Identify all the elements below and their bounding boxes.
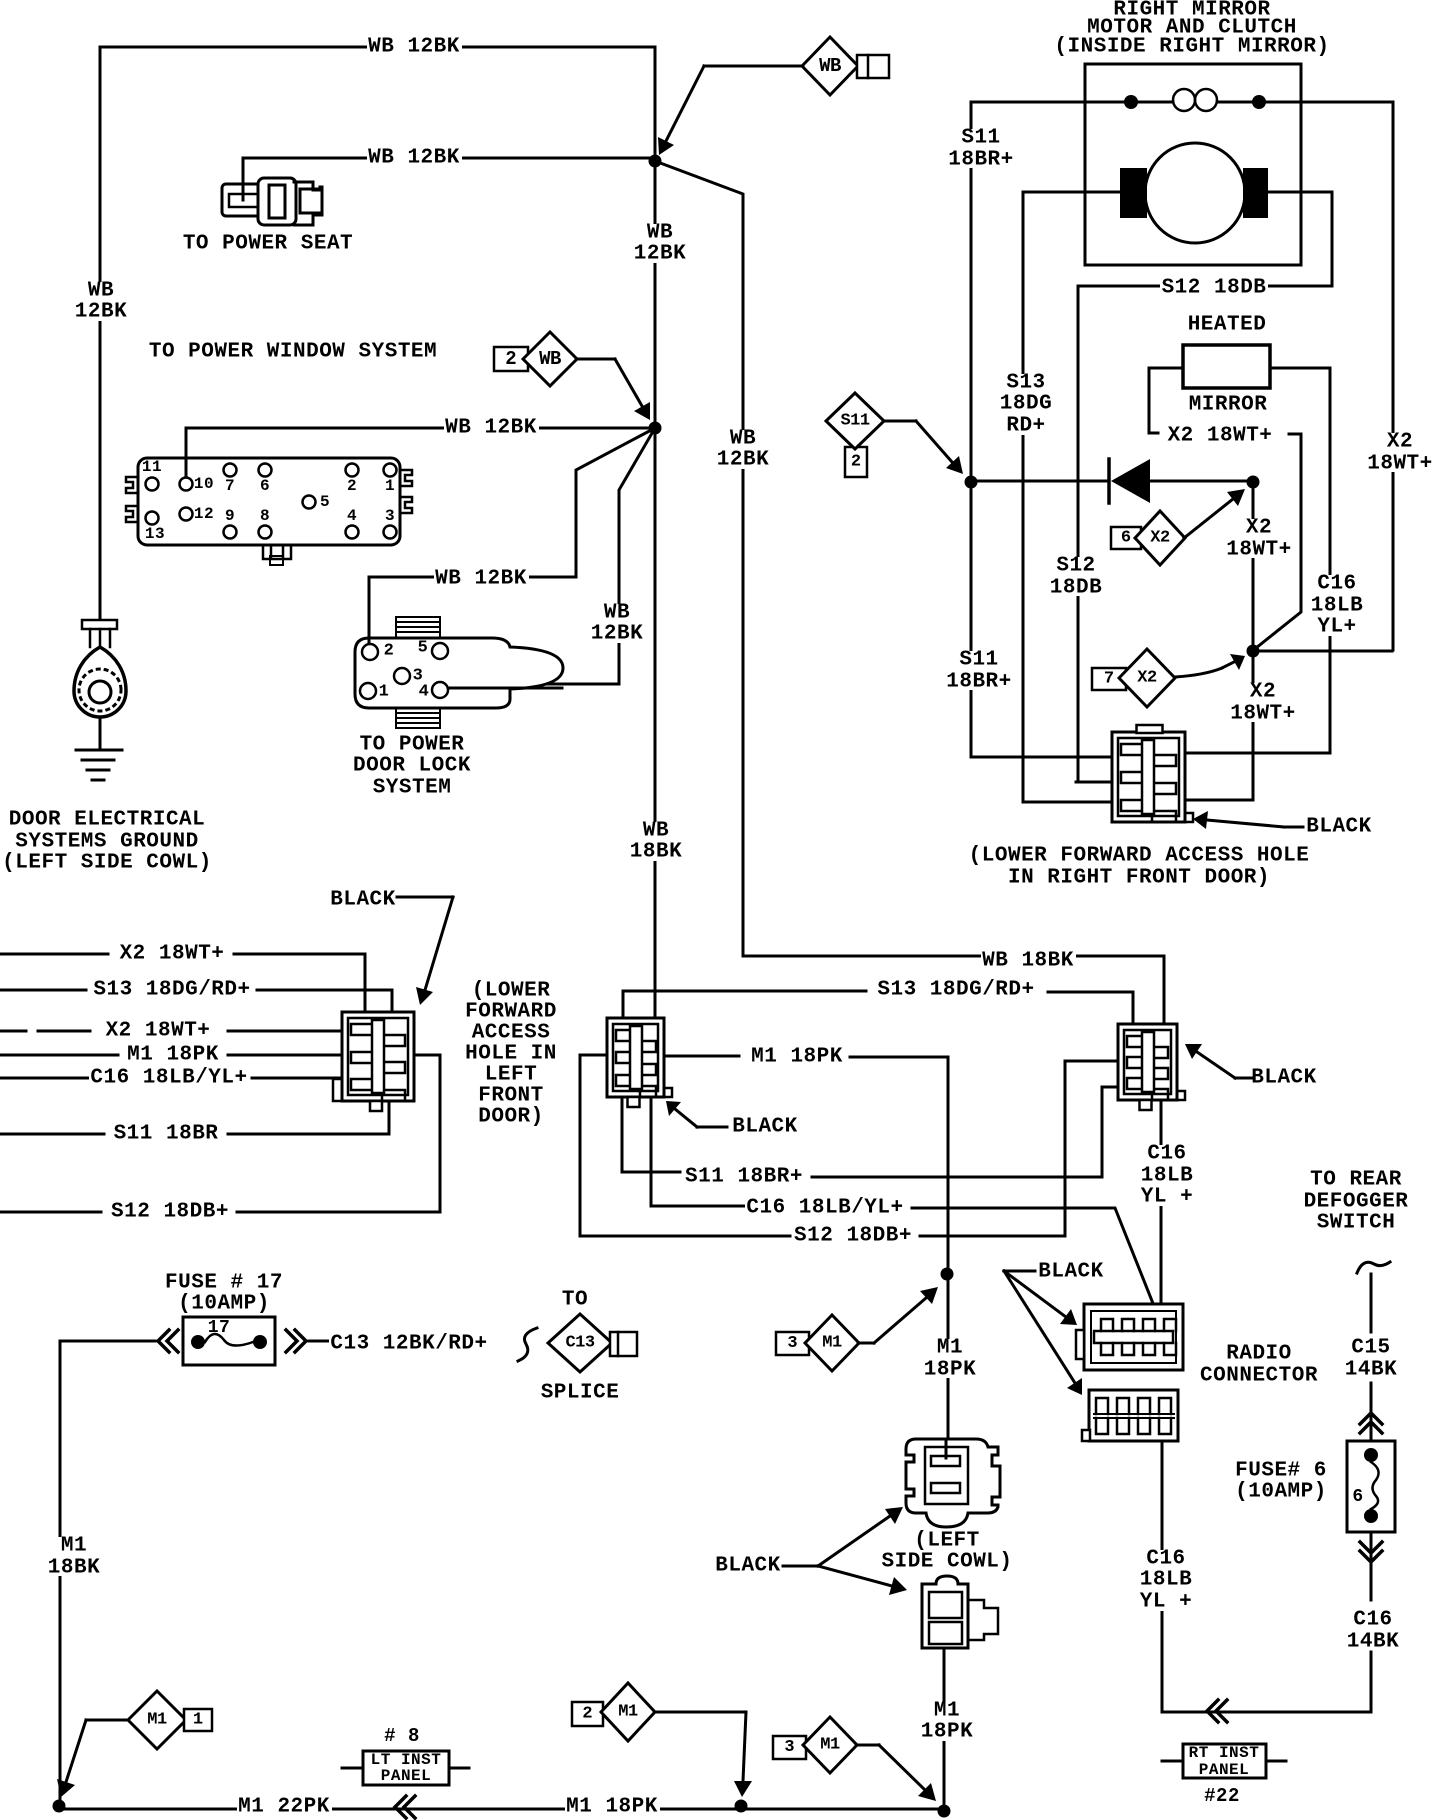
motor symbol bbox=[1145, 143, 1245, 243]
wire M1 18PK label row bbox=[0, 1054, 349, 1057]
arrow BLACK to left connector bbox=[425, 897, 453, 990]
svg-text:HOLE IN: HOLE IN bbox=[465, 1043, 557, 1066]
svg-text:18WT+: 18WT+ bbox=[1230, 703, 1296, 726]
svg-text:18LB: 18LB bbox=[1140, 1569, 1192, 1592]
svg-text:11: 11 bbox=[142, 458, 162, 476]
svg-text:1: 1 bbox=[385, 477, 395, 495]
svg-text:2: 2 bbox=[347, 477, 357, 495]
fuse 17 bbox=[183, 1317, 275, 1365]
wire C15 14BK into fuse 6 bbox=[1370, 1383, 1373, 1441]
label S11 18BR+ upper bbox=[946, 129, 1016, 168]
diamond WB connector callout top bbox=[802, 37, 858, 95]
svg-text:C15: C15 bbox=[1351, 1337, 1390, 1360]
svg-text:DEFOGGER: DEFOGGER bbox=[1304, 1191, 1409, 1214]
label S12 18DB+ middle bbox=[793, 1228, 914, 1245]
defogger wire fork bbox=[1357, 1262, 1390, 1273]
label BLACK middle connector bbox=[731, 1119, 799, 1136]
label WB 12BK top wire bbox=[367, 39, 462, 56]
connector radio upper bbox=[1084, 1304, 1183, 1370]
wire M1 18BK left vertical bbox=[59, 1341, 62, 1806]
label BLACK left connector bbox=[329, 892, 397, 909]
label S12 18DB vertical bbox=[1048, 557, 1104, 596]
connector power window system bbox=[138, 458, 400, 545]
svg-text:X2: X2 bbox=[1246, 517, 1272, 540]
svg-text:HEATED: HEATED bbox=[1188, 314, 1267, 337]
svg-text:S11: S11 bbox=[959, 649, 998, 672]
svg-text:14BK: 14BK bbox=[1347, 1631, 1399, 1654]
arrow BLACK to lower cowl connector bbox=[818, 1566, 892, 1586]
label X2 18WT+ heated mirror bbox=[1166, 428, 1274, 445]
label C15 14BK bbox=[1343, 1339, 1399, 1378]
wire motor clutch coil feed S11/X2 bbox=[971, 101, 1393, 104]
svg-text:4: 4 bbox=[347, 507, 357, 525]
chevron bottom bus bbox=[395, 1796, 415, 1818]
label #8 bbox=[383, 1728, 422, 1743]
wire stub to door-lock pin 2 bbox=[368, 638, 371, 644]
label M1 22PK bbox=[237, 1799, 332, 1816]
box LT INST PANEL bbox=[363, 1751, 449, 1785]
svg-text:18BK: 18BK bbox=[48, 1557, 100, 1580]
svg-text:FORWARD: FORWARD bbox=[465, 1001, 557, 1024]
connector left side cowl upper bbox=[906, 1439, 1000, 1527]
wire WB 12BK power-seat horizontal bbox=[243, 157, 655, 160]
svg-text:X2 18WT+: X2 18WT+ bbox=[120, 943, 225, 966]
label X2 18WT+ diode bbox=[1224, 519, 1294, 558]
wire power seat drop bbox=[242, 158, 245, 196]
svg-text:PANEL: PANEL bbox=[1199, 1761, 1250, 1779]
chevron fuse6 bottom bbox=[1207, 1700, 1227, 1722]
wire X2 18WT label row to left connector top bbox=[0, 954, 365, 1012]
chevron up fuse 6 bbox=[1360, 1413, 1382, 1433]
label M1 18PK row3 bbox=[126, 1047, 221, 1064]
label BLACK right door connector bbox=[1305, 819, 1373, 836]
label fuse 6 bbox=[1233, 1462, 1329, 1501]
label C16 18LB/YL+ middle bbox=[745, 1200, 905, 1217]
svg-text:WB: WB bbox=[730, 428, 756, 451]
svg-text:S11: S11 bbox=[840, 412, 869, 431]
svg-text:BLACK: BLACK bbox=[732, 1116, 798, 1139]
svg-text:8: 8 bbox=[260, 507, 270, 525]
svg-text:PANEL: PANEL bbox=[381, 1767, 432, 1785]
wire S13 18DG/RD label row bbox=[0, 990, 392, 1012]
ground door electrical systems ground bbox=[82, 620, 117, 629]
wire M1 18PK to junction bbox=[664, 1056, 948, 1274]
svg-text:18PK: 18PK bbox=[921, 1721, 973, 1744]
wire S11 to right-door connector bbox=[971, 482, 1112, 757]
svg-text:9: 9 bbox=[225, 507, 235, 525]
svg-text:X2: X2 bbox=[1250, 681, 1276, 704]
svg-text:M1 22PK: M1 22PK bbox=[238, 1796, 330, 1819]
wire C16 18LB YL below lower connector bbox=[1161, 1441, 1164, 1712]
svg-text:2: 2 bbox=[384, 642, 395, 661]
svg-text:2: 2 bbox=[851, 453, 861, 472]
svg-text:C16 18LB/YL+: C16 18LB/YL+ bbox=[746, 1197, 903, 1220]
label X2 18WT+ at junction bbox=[1228, 683, 1298, 722]
wire C16 14BK lower bbox=[1370, 1652, 1373, 1712]
svg-text:M1: M1 bbox=[820, 1736, 840, 1755]
fuse 6 bbox=[1347, 1441, 1395, 1532]
diamond 7 X2 callout bbox=[1092, 668, 1126, 690]
wire S13 18DG/RD vertical bbox=[1023, 192, 1114, 802]
label right mirror motor and clutch bbox=[1052, 1, 1331, 56]
wire break squiggle bbox=[518, 1328, 537, 1361]
svg-text:13: 13 bbox=[145, 525, 165, 543]
svg-text:C13: C13 bbox=[565, 1334, 594, 1353]
svg-text:18WT+: 18WT+ bbox=[1226, 539, 1292, 562]
svg-text:RT INST: RT INST bbox=[1189, 1744, 1260, 1762]
connector to power seat bbox=[222, 184, 266, 216]
diamond 6 X2 callout bbox=[1111, 527, 1141, 549]
label WB 12BK door lock wire bbox=[434, 571, 529, 588]
svg-text:X2: X2 bbox=[1137, 669, 1157, 688]
junction J1 WB splice top bbox=[649, 155, 662, 168]
arrow WB callout to junction J1 bbox=[666, 66, 704, 141]
chevron fuse 17 right bbox=[286, 1330, 306, 1352]
wire coil segment bbox=[1131, 101, 1259, 104]
svg-text:WB 12BK: WB 12BK bbox=[368, 36, 460, 59]
wire stub into power seat connector bbox=[242, 184, 245, 200]
arrow BLACK to right door connector bbox=[1207, 820, 1284, 827]
wire X2 junction to far-right vertical bbox=[1253, 650, 1392, 653]
svg-text:M1: M1 bbox=[937, 1337, 963, 1360]
svg-text:6: 6 bbox=[1121, 529, 1131, 548]
wire M1 bottom bus bbox=[59, 1808, 944, 1811]
svg-text:12BK: 12BK bbox=[717, 449, 769, 472]
arrow 3-M1 lower to junction bbox=[879, 1745, 925, 1790]
svg-text:(LEFT SIDE COWL): (LEFT SIDE COWL) bbox=[2, 852, 212, 875]
wire S11 18BR label row bbox=[0, 1101, 389, 1134]
label WB 12BK window wire bbox=[444, 420, 539, 437]
wire below fuse 6 bbox=[1370, 1532, 1373, 1600]
arrow BLACK to upper cowl connector bbox=[818, 1516, 890, 1566]
junction X2 splice lower bbox=[1247, 645, 1260, 658]
svg-text:C16 18LB/YL+: C16 18LB/YL+ bbox=[90, 1067, 247, 1090]
svg-text:ACCESS: ACCESS bbox=[472, 1022, 551, 1045]
svg-text:BLACK: BLACK bbox=[1038, 1261, 1104, 1284]
svg-text:2: 2 bbox=[505, 348, 516, 370]
connector C-L left front door (comb) bbox=[342, 1012, 414, 1101]
svg-text:S12 18DB+: S12 18DB+ bbox=[794, 1225, 912, 1248]
label S12 18DB horizontal bbox=[1160, 280, 1268, 297]
junction J2 WB splice bbox=[649, 422, 662, 435]
dashes LT INST PANEL bbox=[342, 1767, 469, 1770]
svg-text:2: 2 bbox=[582, 1705, 592, 1724]
dashes RT INST PANEL bbox=[1162, 1760, 1286, 1763]
svg-text:10: 10 bbox=[194, 475, 214, 493]
diamond 2 WB callout bbox=[494, 347, 528, 371]
svg-text:18LB: 18LB bbox=[1141, 1165, 1193, 1188]
connector radio lower bbox=[1089, 1390, 1178, 1441]
wire WB 12BK to door-lock pin 4 bbox=[448, 428, 655, 684]
svg-text:#22: #22 bbox=[1204, 1785, 1240, 1807]
label lower forward access hole left front door bbox=[463, 982, 559, 1126]
arrow BLACK to middle connector bbox=[675, 1109, 697, 1127]
wire S11 18BR cross link bbox=[622, 1087, 1118, 1177]
svg-text:CONNECTOR: CONNECTOR bbox=[1200, 1365, 1318, 1388]
svg-text:(LEFT: (LEFT bbox=[914, 1530, 980, 1553]
svg-text:18PK: 18PK bbox=[924, 1359, 976, 1382]
svg-text:MIRROR: MIRROR bbox=[1189, 394, 1268, 417]
arrow BLACK to right connector row3 bbox=[1197, 1052, 1235, 1078]
label fuse 17 bbox=[163, 1274, 285, 1313]
wire stub to pin 10 bbox=[185, 458, 188, 476]
diamond C13 splice callout bbox=[548, 1314, 612, 1372]
svg-text:SPLICE: SPLICE bbox=[541, 1382, 620, 1405]
wire S13 18DG/RD left-door to right-door bbox=[623, 991, 1133, 1022]
svg-text:YL +: YL + bbox=[1141, 1186, 1193, 1209]
label C13 12BK/RD+ bbox=[329, 1336, 489, 1353]
wire S12 18DB label row bbox=[0, 1055, 440, 1212]
label C16 18LB YL+ lower bbox=[1138, 1550, 1194, 1611]
svg-text:6: 6 bbox=[260, 477, 270, 495]
svg-text:LEFT: LEFT bbox=[485, 1064, 537, 1087]
svg-text:S13 18DG/RD+: S13 18DG/RD+ bbox=[93, 979, 250, 1002]
svg-text:S13 18DG/RD+: S13 18DG/RD+ bbox=[877, 979, 1034, 1002]
diamond 3 M1 callout lower bbox=[773, 1736, 806, 1759]
label WB 12BK right vertical bbox=[715, 430, 771, 469]
svg-text:C16: C16 bbox=[1353, 1609, 1392, 1632]
svg-text:TO REAR: TO REAR bbox=[1310, 1169, 1402, 1192]
svg-text:DOOR): DOOR) bbox=[478, 1106, 544, 1129]
svg-text:5: 5 bbox=[418, 639, 429, 658]
label X2 18WT+ row3 second bbox=[104, 1023, 212, 1040]
label X2 18WT+ far right bbox=[1365, 433, 1435, 472]
arrow 2-M1 to bottom junction bbox=[743, 1712, 746, 1781]
svg-text:18BK: 18BK bbox=[630, 841, 682, 864]
label WB 12BK left vertical bbox=[73, 282, 129, 321]
svg-text:M1: M1 bbox=[934, 1700, 960, 1723]
label left side cowl bbox=[880, 1532, 1015, 1571]
wire X2 18WT from label to junction bbox=[1256, 434, 1301, 648]
junction M1 bottom left bbox=[53, 1800, 66, 1813]
junction M1 bottom middle bbox=[735, 1800, 748, 1813]
label #22 bbox=[1203, 1788, 1242, 1803]
wire fuse 17 feeds bbox=[60, 1340, 330, 1343]
label S11 18BR+ lower bbox=[944, 651, 1014, 690]
wire WB 12BK main vertical bbox=[654, 47, 657, 428]
svg-text:SWITCH: SWITCH bbox=[1317, 1212, 1396, 1235]
svg-text:DOOR LOCK: DOOR LOCK bbox=[353, 755, 471, 778]
label WB 12BK seat wire bbox=[367, 150, 462, 167]
diamond 3 M1 callout upper bbox=[776, 1332, 809, 1355]
svg-text:TO POWER: TO POWER bbox=[360, 734, 465, 757]
wire WB 12BK power-window horizontal bbox=[186, 427, 655, 430]
svg-text:1: 1 bbox=[379, 683, 390, 702]
svg-text:7: 7 bbox=[1104, 670, 1114, 689]
wire stub into cowl connector bbox=[945, 1439, 948, 1458]
svg-text:X2 18WT+: X2 18WT+ bbox=[106, 1020, 211, 1043]
svg-text:S12 18DB+: S12 18DB+ bbox=[111, 1201, 229, 1224]
svg-text:S11 18BR+: S11 18BR+ bbox=[685, 1166, 803, 1189]
arrow 7-X2 callout to junction bbox=[1222, 662, 1234, 668]
wire X2 junction link vertical bbox=[1252, 482, 1255, 651]
label WB 18BK vertical bbox=[628, 822, 684, 861]
label to rear defogger switch bbox=[1302, 1171, 1411, 1232]
svg-text:WB: WB bbox=[643, 820, 669, 843]
svg-text:3: 3 bbox=[784, 1738, 794, 1757]
label M1 18BK bbox=[46, 1537, 102, 1576]
svg-text:WB: WB bbox=[539, 348, 561, 370]
svg-text:1: 1 bbox=[193, 1711, 203, 1730]
door lock pins bbox=[362, 644, 378, 660]
svg-text:M1: M1 bbox=[618, 1703, 638, 1722]
wire M1 18PK lower cowl connector to bottom bbox=[943, 1648, 946, 1811]
svg-text:18DB: 18DB bbox=[1050, 577, 1102, 600]
svg-text:WB 12BK: WB 12BK bbox=[435, 568, 527, 591]
label BLACK right connector row3 bbox=[1250, 1070, 1318, 1087]
label S11 18BR row3 bbox=[112, 1126, 220, 1143]
arrow 3-M1 to junction bbox=[874, 1298, 926, 1343]
svg-text:TO POWER SEAT: TO POWER SEAT bbox=[183, 233, 353, 256]
arrow S11 callout to junction bbox=[916, 421, 952, 462]
svg-text:12BK: 12BK bbox=[634, 243, 686, 266]
svg-text:4: 4 bbox=[419, 683, 430, 702]
svg-text:S11 18BR: S11 18BR bbox=[114, 1123, 219, 1146]
svg-text:FUSE# 6: FUSE# 6 bbox=[1235, 1460, 1327, 1483]
svg-text:TO POWER WINDOW SYSTEM: TO POWER WINDOW SYSTEM bbox=[149, 341, 437, 364]
diode mirror heater bbox=[1107, 459, 1111, 503]
label WB 18BK horizontal bbox=[981, 953, 1076, 970]
svg-text:RADIO: RADIO bbox=[1226, 1343, 1292, 1366]
wire S11 18BR vertical right bbox=[970, 102, 973, 480]
wire S11 junction to diode bbox=[978, 480, 1106, 483]
svg-text:12: 12 bbox=[194, 505, 214, 523]
wire C16 heated mirror right bbox=[1185, 368, 1330, 753]
svg-text:18BR+: 18BR+ bbox=[946, 671, 1012, 694]
right mirror motor and clutch box bbox=[1085, 64, 1301, 265]
svg-text:6: 6 bbox=[1352, 1487, 1363, 1507]
connector C-R3 right door harness (comb) bbox=[1118, 1024, 1177, 1100]
wire motor right brush S12 bbox=[1078, 192, 1332, 286]
svg-text:M1: M1 bbox=[61, 1535, 87, 1558]
wire S12 18DB cross link bbox=[580, 1055, 1118, 1236]
svg-text:C16: C16 bbox=[1147, 1143, 1186, 1166]
wire fuse6 bottom horizontal bbox=[1162, 1711, 1371, 1714]
arrow BLACK to lower connector bbox=[1004, 1271, 1075, 1383]
connector C-R2 right front door (comb) bbox=[1112, 732, 1185, 822]
svg-text:C13 12BK/RD+: C13 12BK/RD+ bbox=[330, 1333, 487, 1356]
svg-text:YL +: YL + bbox=[1140, 1591, 1192, 1614]
svg-text:18BR+: 18BR+ bbox=[948, 149, 1014, 172]
svg-text:BLACK: BLACK bbox=[1251, 1067, 1317, 1090]
svg-text:BLACK: BLACK bbox=[715, 1555, 781, 1578]
chevron fuse 17 left bbox=[158, 1330, 178, 1352]
wire C15 from defogger fork bbox=[1370, 1274, 1373, 1332]
wire WB 12BK to door-lock pin 2 bbox=[369, 428, 655, 652]
svg-text:WB 12BK: WB 12BK bbox=[368, 147, 460, 170]
chevron down fuse 6 bbox=[1360, 1542, 1382, 1562]
svg-text:WB 18BK: WB 18BK bbox=[982, 950, 1074, 973]
junction S11 splice bbox=[965, 476, 978, 489]
svg-text:WB: WB bbox=[647, 222, 673, 245]
label M1 18PK middle bbox=[750, 1049, 845, 1066]
label M1 18PK vertical bbox=[922, 1339, 978, 1378]
svg-text:X2: X2 bbox=[1150, 529, 1170, 548]
svg-text:IN RIGHT FRONT DOOR): IN RIGHT FRONT DOOR) bbox=[1008, 867, 1270, 890]
svg-text:WB: WB bbox=[604, 602, 630, 625]
wire S12 18DB vertical bbox=[1076, 286, 1118, 782]
label door electrical systems ground bbox=[0, 811, 214, 872]
wire C16 18LB/YL to radio connector bbox=[651, 1097, 1158, 1316]
svg-text:S13: S13 bbox=[1006, 372, 1045, 395]
svg-text:18LB: 18LB bbox=[1311, 595, 1363, 618]
svg-text:5: 5 bbox=[320, 493, 330, 511]
label TO POWER WINDOW SYSTEM bbox=[147, 344, 438, 361]
svg-text:X2 18WT+: X2 18WT+ bbox=[1168, 425, 1273, 448]
svg-text:18WT+: 18WT+ bbox=[1367, 453, 1433, 476]
wire motor left brush S13 bbox=[1023, 191, 1120, 194]
label S13 18DG/RD+ row3 bbox=[92, 982, 252, 999]
label TO splice bbox=[560, 1292, 589, 1309]
wire M1 18PK junction to cowl connector bbox=[947, 1274, 950, 1455]
label lower forward access hole right front door bbox=[967, 847, 1312, 886]
label CONNECTOR bbox=[1199, 1368, 1320, 1385]
arrow M1-1 to bottom junction bbox=[66, 1720, 86, 1782]
wire WB 12BK left vertical bbox=[99, 47, 102, 619]
label C16 18LB/YL+ row3 bbox=[89, 1070, 249, 1087]
svg-text:BLACK: BLACK bbox=[330, 889, 396, 912]
label C16 18LB YL+ above radio bbox=[1139, 1145, 1195, 1206]
wire WB 18BK to right door bbox=[655, 161, 1164, 1022]
clutch coil bbox=[1124, 95, 1138, 109]
svg-text:C16: C16 bbox=[1317, 573, 1356, 596]
arrow 6-X2 callout to junction bbox=[1184, 499, 1233, 538]
wire WB 12BK top horizontal bbox=[100, 46, 655, 49]
wire X2 18WT far right vertical bbox=[1392, 102, 1395, 650]
label RADIO bbox=[1225, 1346, 1293, 1363]
svg-text:FUSE # 17: FUSE # 17 bbox=[165, 1272, 283, 1295]
svg-text:S11: S11 bbox=[961, 127, 1000, 150]
power window pins bbox=[146, 478, 159, 491]
label WB 12BK mid vertical bbox=[632, 224, 688, 263]
label M1 18PK cowl bbox=[919, 1702, 975, 1741]
wire X2 to right-door connector lower pin bbox=[1185, 653, 1253, 800]
svg-text:SYSTEM: SYSTEM bbox=[373, 777, 452, 800]
wire diode to X2 junction bbox=[1150, 480, 1250, 483]
label HEATED bbox=[1186, 317, 1268, 334]
svg-text:YL+: YL+ bbox=[1317, 616, 1356, 639]
wire heated mirror left X2 bbox=[1149, 368, 1183, 433]
svg-text:SYSTEMS GROUND: SYSTEMS GROUND bbox=[15, 831, 198, 854]
svg-text:BLACK: BLACK bbox=[1306, 816, 1372, 839]
svg-text:(10AMP): (10AMP) bbox=[178, 1293, 270, 1316]
label S13 18DG/RD+ middle bbox=[876, 982, 1036, 999]
junction M1 bottom right bbox=[938, 1805, 951, 1818]
svg-text:M1 18PK: M1 18PK bbox=[566, 1796, 658, 1819]
svg-text:M1: M1 bbox=[147, 1711, 167, 1730]
connector to power door lock system bbox=[396, 617, 440, 638]
label MIRROR bbox=[1187, 397, 1269, 414]
label S11 18BR+ middle bbox=[684, 1169, 805, 1186]
wire C16 18LB YL to radio connector vertical bbox=[1160, 1100, 1163, 1312]
callout BLACK radio connectors bbox=[1037, 1264, 1105, 1281]
box RT INST PANEL bbox=[1183, 1744, 1266, 1778]
label C16 14BK bbox=[1345, 1611, 1401, 1650]
svg-text:DOOR ELECTRICAL: DOOR ELECTRICAL bbox=[9, 809, 206, 832]
label TO POWER SEAT bbox=[181, 236, 354, 253]
svg-text:(LOWER: (LOWER bbox=[472, 980, 551, 1003]
wire WB 18BK down to left-door connector bbox=[654, 428, 657, 1018]
svg-text:WB: WB bbox=[88, 280, 114, 303]
wire power-window drop to pin 10 bbox=[185, 428, 188, 478]
label M1 18PK bottom bbox=[565, 1799, 660, 1816]
svg-text:M1 18PK: M1 18PK bbox=[127, 1044, 219, 1067]
arrow 2-WB callout to junction J2 bbox=[615, 359, 642, 406]
junction X2 splice upper bbox=[1247, 476, 1260, 489]
svg-text:TO: TO bbox=[562, 1289, 588, 1312]
connector C-M left door harness (comb) bbox=[607, 1018, 664, 1097]
svg-text:RD+: RD+ bbox=[1006, 415, 1045, 438]
